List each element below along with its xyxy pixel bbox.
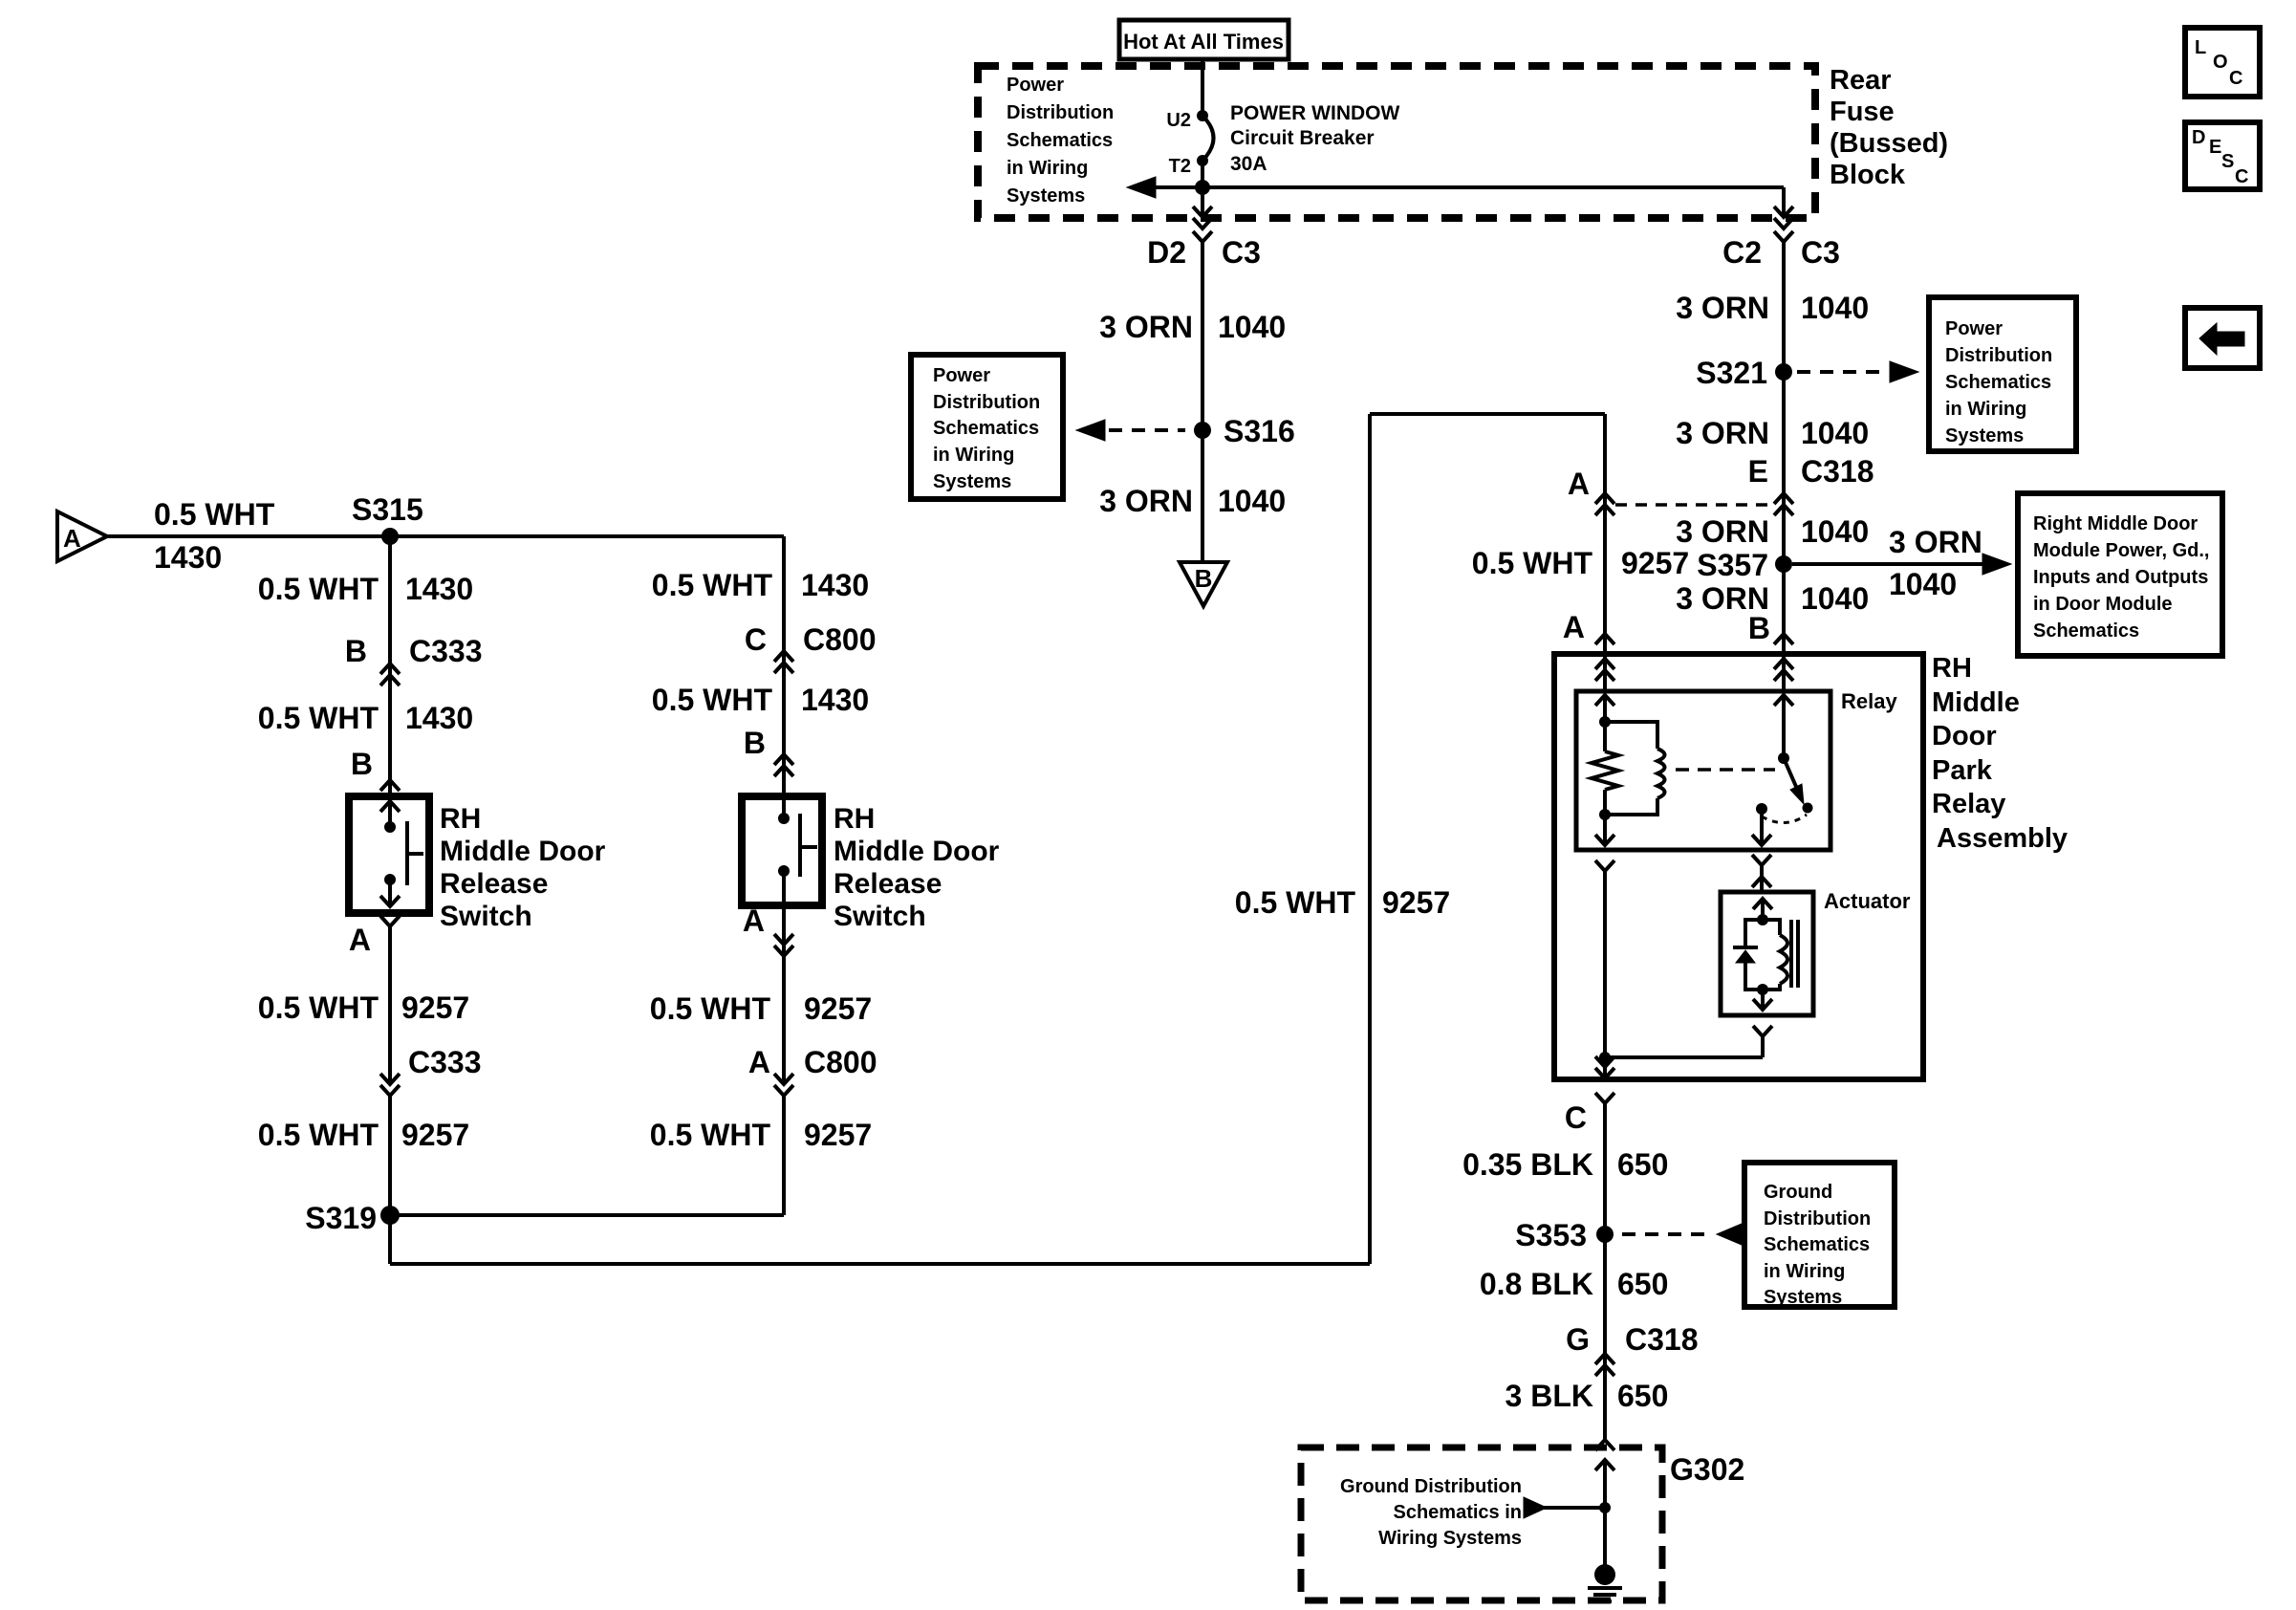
relay switch throw contact — [1756, 803, 1767, 815]
svg-text:Actuator: Actuator — [1824, 889, 1911, 913]
wire 0.35 BLK 650 — [1603, 1103, 1607, 1440]
svg-text:650: 650 — [1617, 1147, 1668, 1182]
wire branch1 to S319 — [388, 1096, 392, 1215]
RH Middle Door Release Switch 2 box — [742, 796, 822, 905]
svg-text:3 ORN: 3 ORN — [1676, 514, 1769, 549]
svg-text:Systems: Systems — [1945, 425, 2024, 446]
svg-text:1430: 1430 — [801, 568, 869, 602]
relay coil input arrow — [1595, 695, 1614, 706]
reference box Ground Distribution Schematics — [1744, 1163, 1895, 1307]
svg-text:9257: 9257 — [804, 991, 872, 1026]
svg-text:Door: Door — [1932, 721, 1997, 751]
splice S321 — [1775, 363, 1792, 381]
svg-text:B: B — [744, 726, 766, 760]
connector chevron above switch 1 — [380, 780, 400, 791]
ground G302 symbol — [1594, 1564, 1615, 1585]
svg-text:Assembly: Assembly — [1937, 823, 2068, 854]
connector chevron above G302 — [1595, 1440, 1614, 1450]
svg-text:Inputs and Outputs: Inputs and Outputs — [2033, 567, 2208, 588]
svg-text:0.8 BLK: 0.8 BLK — [1480, 1267, 1593, 1301]
svg-text:A: A — [748, 1045, 770, 1079]
connector below actuator — [1753, 1026, 1772, 1036]
splice S353 — [1596, 1226, 1614, 1243]
svg-text:C800: C800 — [804, 1045, 877, 1079]
svg-text:Middle Door: Middle Door — [834, 836, 1000, 867]
svg-text:A: A — [1568, 467, 1590, 501]
connector C800 pin down arrows — [774, 1074, 793, 1084]
svg-text:in Wiring: in Wiring — [1007, 158, 1088, 179]
svg-text:650: 650 — [1617, 1379, 1668, 1413]
svg-text:RH: RH — [440, 803, 481, 835]
svg-text:C3: C3 — [1801, 235, 1840, 270]
dashed connector tie line C318 — [1615, 503, 1772, 507]
svg-text:Systems: Systems — [1007, 185, 1085, 207]
svg-text:1040: 1040 — [1801, 514, 1869, 549]
svg-text:C333: C333 — [408, 1045, 482, 1079]
svg-text:3 ORN: 3 ORN — [1099, 484, 1193, 518]
svg-text:S315: S315 — [352, 492, 423, 527]
svg-text:Fuse: Fuse — [1830, 97, 1895, 127]
connector C318 chevrons pin A — [1595, 493, 1614, 504]
svg-text:Distribution: Distribution — [933, 392, 1040, 413]
svg-text:0.5 WHT: 0.5 WHT — [154, 497, 275, 532]
wire branch 1 down to switch — [388, 536, 392, 796]
svg-text:9257: 9257 — [401, 1118, 469, 1152]
svg-text:C318: C318 — [1801, 454, 1874, 489]
svg-text:POWER WINDOW: POWER WINDOW — [1230, 102, 1399, 124]
off-page connector triangle B — [1180, 562, 1227, 606]
splice S357 — [1775, 555, 1792, 573]
svg-text:B: B — [1195, 564, 1213, 593]
svg-text:in Wiring: in Wiring — [1945, 399, 2026, 420]
Rear Fuse (Bussed) Block dashed outline — [978, 66, 1815, 218]
svg-text:Power: Power — [1945, 318, 2003, 339]
svg-text:3 BLK: 3 BLK — [1505, 1379, 1593, 1413]
reference arrow into G302 wire — [1524, 1497, 1547, 1518]
svg-text:Schematics: Schematics — [2033, 620, 2139, 642]
legend box back arrow — [2185, 308, 2260, 368]
svg-text:B: B — [1748, 611, 1770, 645]
svg-text:S353: S353 — [1515, 1218, 1587, 1252]
connector exit arrows C2 side — [1782, 187, 1786, 217]
svg-text:9257: 9257 — [804, 1118, 872, 1152]
connector C333 chevrons pin B — [380, 664, 400, 674]
svg-text:S: S — [2221, 151, 2234, 172]
connector chevrons above switch 2 — [774, 754, 793, 765]
svg-text:in Door Module: in Door Module — [2033, 594, 2173, 615]
svg-text:3 ORN: 3 ORN — [1676, 416, 1769, 450]
splice S315 — [381, 528, 399, 545]
svg-text:Right Middle Door: Right Middle Door — [2033, 513, 2198, 534]
relay coil output arrow — [1603, 815, 1607, 845]
actuator output arrow — [1761, 990, 1765, 1010]
svg-text:C318: C318 — [1625, 1322, 1699, 1357]
svg-text:0.35 BLK: 0.35 BLK — [1462, 1147, 1593, 1182]
actuator node bottom — [1757, 984, 1768, 995]
assembly boundary chevrons pin A — [1595, 659, 1614, 669]
junction node in fuse block — [1195, 180, 1210, 195]
svg-text:Module Power, Gd.,: Module Power, Gd., — [2033, 540, 2209, 561]
svg-text:1040: 1040 — [1218, 484, 1286, 518]
relay resistor — [1603, 722, 1607, 751]
reference box Power Distribution Schematics (S321) — [1929, 297, 2076, 451]
connector fork pin C — [1595, 1093, 1614, 1103]
wire actuator return to pin C rail — [1605, 1055, 1763, 1059]
svg-text:in Wiring: in Wiring — [1764, 1261, 1845, 1282]
off-page connector triangle A — [57, 511, 107, 561]
dashed reference arrow S321 to box — [1797, 370, 1885, 374]
svg-text:D: D — [2192, 127, 2205, 148]
svg-text:9257: 9257 — [1382, 885, 1450, 920]
actuator node top — [1757, 914, 1768, 925]
relay coil node top — [1599, 716, 1611, 728]
svg-text:B: B — [345, 634, 367, 668]
svg-text:0.5 WHT: 0.5 WHT — [258, 572, 379, 606]
svg-text:Hot At All Times: Hot At All Times — [1123, 30, 1284, 54]
wire branch2 to S319 rail — [782, 1096, 786, 1215]
svg-text:S319: S319 — [305, 1201, 377, 1235]
svg-text:Schematics: Schematics — [1945, 372, 2051, 393]
svg-text:U2: U2 — [1166, 110, 1191, 131]
svg-text:E: E — [2209, 137, 2221, 158]
svg-text:Schematics: Schematics — [933, 418, 1039, 439]
connector chevron above assembly pin A — [1595, 634, 1614, 644]
svg-text:Wiring Systems: Wiring Systems — [1378, 1528, 1522, 1549]
connector fork C3 C2 side — [1774, 231, 1793, 242]
svg-text:in Wiring: in Wiring — [933, 445, 1014, 466]
svg-text:S316: S316 — [1224, 414, 1295, 448]
svg-text:T2: T2 — [1169, 156, 1191, 177]
splice S316 — [1194, 422, 1211, 439]
G302 dashed box — [1301, 1447, 1662, 1600]
svg-text:0.5 WHT: 0.5 WHT — [1235, 885, 1356, 920]
relay switch input arrow — [1774, 695, 1793, 706]
svg-text:S357: S357 — [1697, 548, 1768, 582]
wire from tall riser to relay pin A — [1370, 412, 1605, 416]
svg-text:C: C — [2229, 68, 2242, 89]
svg-text:0.5 WHT: 0.5 WHT — [650, 1118, 771, 1152]
relay switch dashed travel arc — [1762, 815, 1807, 823]
svg-text:Relay: Relay — [1841, 689, 1897, 713]
svg-text:C: C — [2235, 166, 2248, 187]
svg-text:Park: Park — [1932, 755, 1993, 786]
svg-text:1040: 1040 — [1218, 310, 1286, 344]
wire S319 to riser — [388, 1215, 392, 1264]
ground wire into G302 — [1595, 1460, 1614, 1470]
svg-text:Switch: Switch — [440, 901, 532, 932]
svg-text:Middle: Middle — [1932, 687, 2020, 718]
svg-text:1430: 1430 — [405, 572, 473, 606]
svg-text:Systems: Systems — [1764, 1287, 1842, 1308]
svg-text:D2: D2 — [1147, 235, 1186, 270]
svg-text:9257: 9257 — [1621, 546, 1689, 580]
wire 0.5 WHT 9257 branch1 — [388, 926, 392, 1084]
svg-text:Distribution: Distribution — [1764, 1208, 1871, 1229]
svg-text:Power: Power — [1007, 75, 1064, 96]
RH Middle Door Park Relay Assembly box — [1554, 654, 1923, 1079]
svg-text:1430: 1430 — [405, 701, 473, 735]
svg-text:RH: RH — [834, 803, 875, 835]
svg-text:Ground Distribution: Ground Distribution — [1340, 1476, 1522, 1497]
svg-text:L: L — [2195, 37, 2206, 58]
connector fork C3 D2 side — [1193, 231, 1212, 242]
wire 3 ORN 1040 (D2 branch) — [1201, 242, 1204, 562]
svg-text:C: C — [745, 622, 767, 657]
svg-text:S321: S321 — [1696, 356, 1767, 390]
RH Middle Door Release Switch 1 box — [349, 796, 429, 913]
svg-text:3 ORN: 3 ORN — [1676, 291, 1769, 325]
svg-text:650: 650 — [1617, 1267, 1668, 1301]
svg-text:1040: 1040 — [1889, 567, 1957, 601]
actuator input arrow — [1753, 899, 1772, 909]
assembly boundary chevrons pin B — [1774, 659, 1793, 669]
svg-text:A: A — [743, 903, 765, 938]
relay coil (parallel) — [1605, 722, 1657, 749]
svg-text:A: A — [349, 923, 371, 957]
svg-text:0.5 WHT: 0.5 WHT — [652, 683, 773, 717]
wire T2 to junction — [1201, 161, 1204, 187]
relay coil node bottom — [1599, 809, 1611, 820]
svg-text:A: A — [63, 524, 81, 553]
svg-text:G302: G302 — [1670, 1452, 1744, 1487]
splice S319 — [380, 1206, 400, 1225]
svg-text:Distribution: Distribution — [1007, 102, 1114, 123]
svg-text:C333: C333 — [409, 634, 483, 668]
svg-text:Switch: Switch — [834, 901, 926, 932]
switch 1 contacts and plunger — [380, 801, 400, 812]
connector between relay and actuator — [1752, 855, 1771, 865]
relay output arrow — [1760, 809, 1764, 845]
svg-text:C800: C800 — [803, 622, 877, 657]
wire 3 ORN 1040 (C2 branch) — [1782, 242, 1786, 691]
svg-text:Rear: Rear — [1830, 65, 1892, 96]
svg-text:30A: 30A — [1230, 153, 1267, 175]
svg-text:C2: C2 — [1722, 235, 1762, 270]
svg-text:0.5 WHT: 0.5 WHT — [650, 991, 771, 1026]
svg-text:A: A — [1563, 610, 1585, 644]
bus wire inside fuse block with left arrow — [1143, 185, 1784, 189]
connector C318 chevrons pin E — [1774, 493, 1793, 504]
connector exit arrows D2 side — [1201, 187, 1204, 217]
svg-text:B: B — [351, 747, 373, 781]
svg-text:Ground: Ground — [1764, 1182, 1832, 1203]
actuator diode branch — [1745, 920, 1763, 946]
svg-text:0.5 WHT: 0.5 WHT — [652, 568, 773, 602]
connector C333 pin down arrows — [380, 1074, 400, 1084]
relay switch arm — [1784, 758, 1797, 789]
circuit breaker CB U2/T2 POWER WINDOW 30A — [1197, 110, 1208, 121]
reference box Power Distribution Schematics (S316) — [911, 355, 1063, 499]
svg-text:Systems: Systems — [933, 471, 1011, 492]
relay switch pivot — [1778, 752, 1789, 764]
svg-text:1430: 1430 — [154, 540, 222, 575]
svg-text:1040: 1040 — [1801, 581, 1869, 616]
legend box DESC — [2185, 122, 2260, 189]
actuator solenoid coil — [1763, 920, 1780, 935]
svg-text:0.5 WHT: 0.5 WHT — [258, 1118, 379, 1152]
svg-text:0.5 WHT: 0.5 WHT — [258, 990, 379, 1025]
svg-text:1040: 1040 — [1801, 416, 1869, 450]
wire 0.5 WHT 9257 riser — [1368, 414, 1372, 1264]
legend box LOC — [2185, 28, 2260, 97]
reference box Right Middle Door Module — [2018, 493, 2222, 656]
svg-text:Schematics: Schematics — [1764, 1234, 1870, 1255]
actuator solenoid core lines — [1789, 920, 1793, 988]
svg-text:0.5 WHT: 0.5 WHT — [1472, 546, 1593, 580]
connector C800 chevrons pin C — [774, 651, 793, 662]
svg-text:C: C — [1565, 1100, 1587, 1135]
svg-text:E: E — [1748, 454, 1768, 489]
svg-text:Power: Power — [933, 365, 990, 386]
connector chevron above assembly pin B — [1774, 634, 1793, 644]
switch 2 contacts and plunger — [782, 796, 786, 818]
svg-text:Distribution: Distribution — [1945, 345, 2052, 366]
svg-text:Schematics in: Schematics in — [1393, 1502, 1522, 1523]
svg-text:O: O — [2213, 52, 2228, 73]
svg-text:RH: RH — [1932, 653, 1972, 684]
dashed reference arrow S353 to box — [1622, 1232, 1709, 1236]
svg-text:Relay: Relay — [1932, 789, 2005, 819]
connector fork below switch 1 — [380, 916, 400, 926]
wire S319 horizontal rail — [390, 1213, 784, 1217]
relay dashed actuation link — [1676, 768, 1775, 772]
svg-text:Middle Door: Middle Door — [440, 836, 606, 867]
dashed reference arrow S316 to box — [1076, 420, 1105, 441]
actuator box — [1721, 892, 1813, 1015]
relay box — [1576, 691, 1830, 850]
svg-text:3 ORN: 3 ORN — [1889, 525, 1982, 559]
svg-text:Schematics: Schematics — [1007, 130, 1113, 151]
svg-text:Release: Release — [834, 868, 942, 900]
svg-text:(Bussed): (Bussed) — [1830, 128, 1948, 159]
svg-text:9257: 9257 — [401, 990, 469, 1025]
junction label box "Hot At All Times" — [1119, 20, 1289, 59]
svg-text:G: G — [1566, 1322, 1590, 1357]
svg-text:1430: 1430 — [801, 683, 869, 717]
connector C318 chevrons pin G — [1595, 1354, 1614, 1364]
svg-text:Block: Block — [1830, 160, 1906, 190]
wire 0.5 WHT 9257 branch2 with exit arrows — [782, 905, 786, 1084]
wire from Hot At All Times into fuse block — [1201, 59, 1204, 116]
assembly exit arrows pin C — [1603, 1057, 1607, 1078]
svg-text:Release: Release — [440, 868, 548, 900]
svg-text:0.5 WHT: 0.5 WHT — [258, 701, 379, 735]
wire 0.5 WHT 1430 main rail — [107, 534, 784, 538]
svg-text:C3: C3 — [1222, 235, 1261, 270]
svg-text:3 ORN: 3 ORN — [1099, 310, 1193, 344]
branch wire 3 ORN 1040 to door module — [1792, 562, 1984, 566]
svg-text:1040: 1040 — [1801, 291, 1869, 325]
relay coil return wire — [1595, 860, 1614, 871]
wire branch 2 down to switch — [782, 536, 786, 796]
svg-text:Circuit Breaker: Circuit Breaker — [1230, 127, 1375, 149]
